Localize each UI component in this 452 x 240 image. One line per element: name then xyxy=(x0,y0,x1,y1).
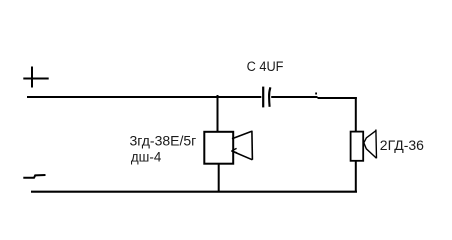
wire top rail right segment (step to right corner) xyxy=(318,97,357,99)
wire junction dot artifact xyxy=(315,93,317,95)
wire top rail left segment (plus to capacitor) xyxy=(27,96,261,98)
wire right vertical drop (speaker BA2 to bottom rail) xyxy=(355,161,357,192)
battery plus terminal + xyxy=(23,67,48,88)
speaker BA2 2ГД-36 xyxy=(351,130,425,161)
speaker BA1 3гд-38Е/5г дш-4 xyxy=(130,131,253,165)
wire middle vertical drop (speaker BA1 to bottom rail) xyxy=(218,164,220,192)
wire bottom rail xyxy=(31,191,357,193)
wire top rail middle segment (capacitor to step) xyxy=(271,96,317,98)
svg-text:дш-4: дш-4 xyxy=(131,148,162,164)
svg-text:2ГД-36: 2ГД-36 xyxy=(380,137,424,153)
wire middle vertical drop (top rail to speaker BA1) xyxy=(217,95,219,132)
battery minus terminal - xyxy=(23,175,45,178)
capacitor C 4UF xyxy=(247,59,284,107)
svg-text:3гд-38Е/5г: 3гд-38Е/5г xyxy=(130,133,197,149)
wire right vertical drop (top rail to speaker BA2) xyxy=(355,97,357,132)
svg-text:C 4UF: C 4UF xyxy=(247,59,284,74)
